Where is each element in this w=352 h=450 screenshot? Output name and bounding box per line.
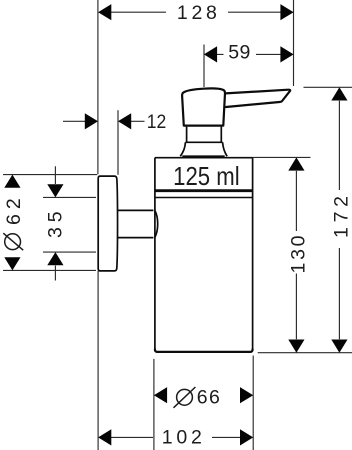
59 left arrowhead bbox=[204, 46, 217, 62]
bottle bottom edge bbox=[155, 349, 253, 352]
wire: bracket top extension line (35 top) bbox=[43, 196, 96, 198]
dia62 bottom arrowhead pointing down bbox=[4, 257, 20, 270]
wire: left wall extension line (upper) bbox=[97, 0, 99, 174]
130 bottom arrowhead pointing down bbox=[288, 340, 304, 353]
bottle right edge bbox=[252, 158, 254, 351]
wall plate (side view) bbox=[98, 176, 117, 271]
pump collar right side bbox=[223, 142, 228, 156]
svg-text:130: 130 bbox=[288, 235, 310, 273]
59 right arrowhead bbox=[280, 46, 293, 62]
holder ring top edge across bottle bbox=[156, 197, 253, 199]
dia66 diameter symbol circle bbox=[177, 389, 193, 405]
pump neck right edge bbox=[220, 127, 222, 143]
wire: 130 dimension line segments bbox=[295, 171, 297, 339]
bracket arm bottom edge bbox=[118, 237, 154, 239]
172 top arrowhead pointing up bbox=[331, 87, 347, 100]
pump collar left side bbox=[180, 142, 185, 156]
130 top arrowhead pointing up bbox=[288, 157, 304, 170]
pump head knob bbox=[182, 88, 225, 125]
svg-text:125 ml: 125 ml bbox=[173, 161, 240, 191]
102 left arrowhead pointing left bbox=[98, 429, 111, 445]
wire: bracket bottom extension line (35 bottom) bbox=[43, 251, 96, 253]
wire: bottle top extension to 130 dim bbox=[253, 156, 311, 158]
svg-text:66: 66 bbox=[197, 387, 220, 409]
wire: plate top extension line (dia62 top) bbox=[3, 174, 97, 176]
128 right arrowhead bbox=[280, 4, 293, 20]
wire: left wall extension line (lower) bbox=[97, 271, 99, 450]
bottle left edge bbox=[154, 158, 156, 351]
wire: right extension line at lever tip bbox=[293, 0, 295, 86]
svg-text:12: 12 bbox=[147, 111, 167, 133]
wire: pump axis extension line bbox=[203, 45, 205, 88]
172 bottom arrowhead pointing down bbox=[331, 340, 347, 353]
12 left arrowhead pointing right bbox=[85, 113, 98, 129]
pump neck left edge bbox=[186, 127, 188, 143]
wire: 35 top arrow tail bbox=[54, 166, 56, 184]
svg-text:59: 59 bbox=[228, 41, 250, 63]
dia66 diameter symbol slash bbox=[174, 387, 196, 408]
102 right arrowhead pointing right bbox=[240, 429, 253, 445]
bottle top edge bbox=[155, 157, 253, 159]
dia62 diameter symbol circle bbox=[5, 234, 21, 250]
svg-text:172: 172 bbox=[331, 196, 352, 238]
wire: lever top extension line (172 top) bbox=[304, 86, 352, 88]
35 bottom arrowhead pointing up bbox=[47, 252, 63, 265]
wire: 102 dimension line segments bbox=[111, 436, 240, 438]
svg-text:128: 128 bbox=[177, 2, 217, 24]
wire: plate right extension line bbox=[117, 110, 119, 175]
bracket arm top edge bbox=[118, 209, 154, 211]
wire: 128 dimension line segments bbox=[110, 11, 282, 13]
wire: 59 dimension line segments bbox=[217, 53, 281, 55]
wire: 35 bottom arrow tail bbox=[54, 266, 56, 281]
wire: plate bottom extension line (dia62 bottom) bbox=[3, 269, 96, 271]
wire: bottom left extension line (dia66/102) bbox=[153, 359, 155, 450]
dia62 top arrowhead pointing up bbox=[4, 175, 20, 188]
pump lever spout bbox=[226, 90, 291, 107]
12 right arrowhead pointing left bbox=[118, 113, 131, 129]
pump collar top edge bbox=[185, 141, 222, 143]
128 left arrowhead bbox=[98, 4, 111, 20]
wire: 172 dimension line segments bbox=[338, 101, 340, 339]
wire: bottle bottom extension line (130/172 bottom) bbox=[258, 352, 352, 354]
bracket arm rounded end on bottle bbox=[155, 211, 158, 238]
wire: bottom right extension line (dia66/102) bbox=[252, 356, 254, 450]
35 top arrowhead pointing down bbox=[47, 184, 63, 197]
svg-text:102: 102 bbox=[162, 427, 202, 449]
dia66 left arrowhead pointing left bbox=[154, 387, 167, 403]
dia62 diameter symbol slash bbox=[3, 233, 23, 250]
bottle label band bottom thick edge bbox=[155, 189, 253, 192]
pump collar bottom edge bbox=[182, 155, 224, 157]
dia66 right arrowhead pointing right bbox=[240, 387, 253, 403]
wire: 12 dimension line segments bbox=[63, 120, 145, 122]
